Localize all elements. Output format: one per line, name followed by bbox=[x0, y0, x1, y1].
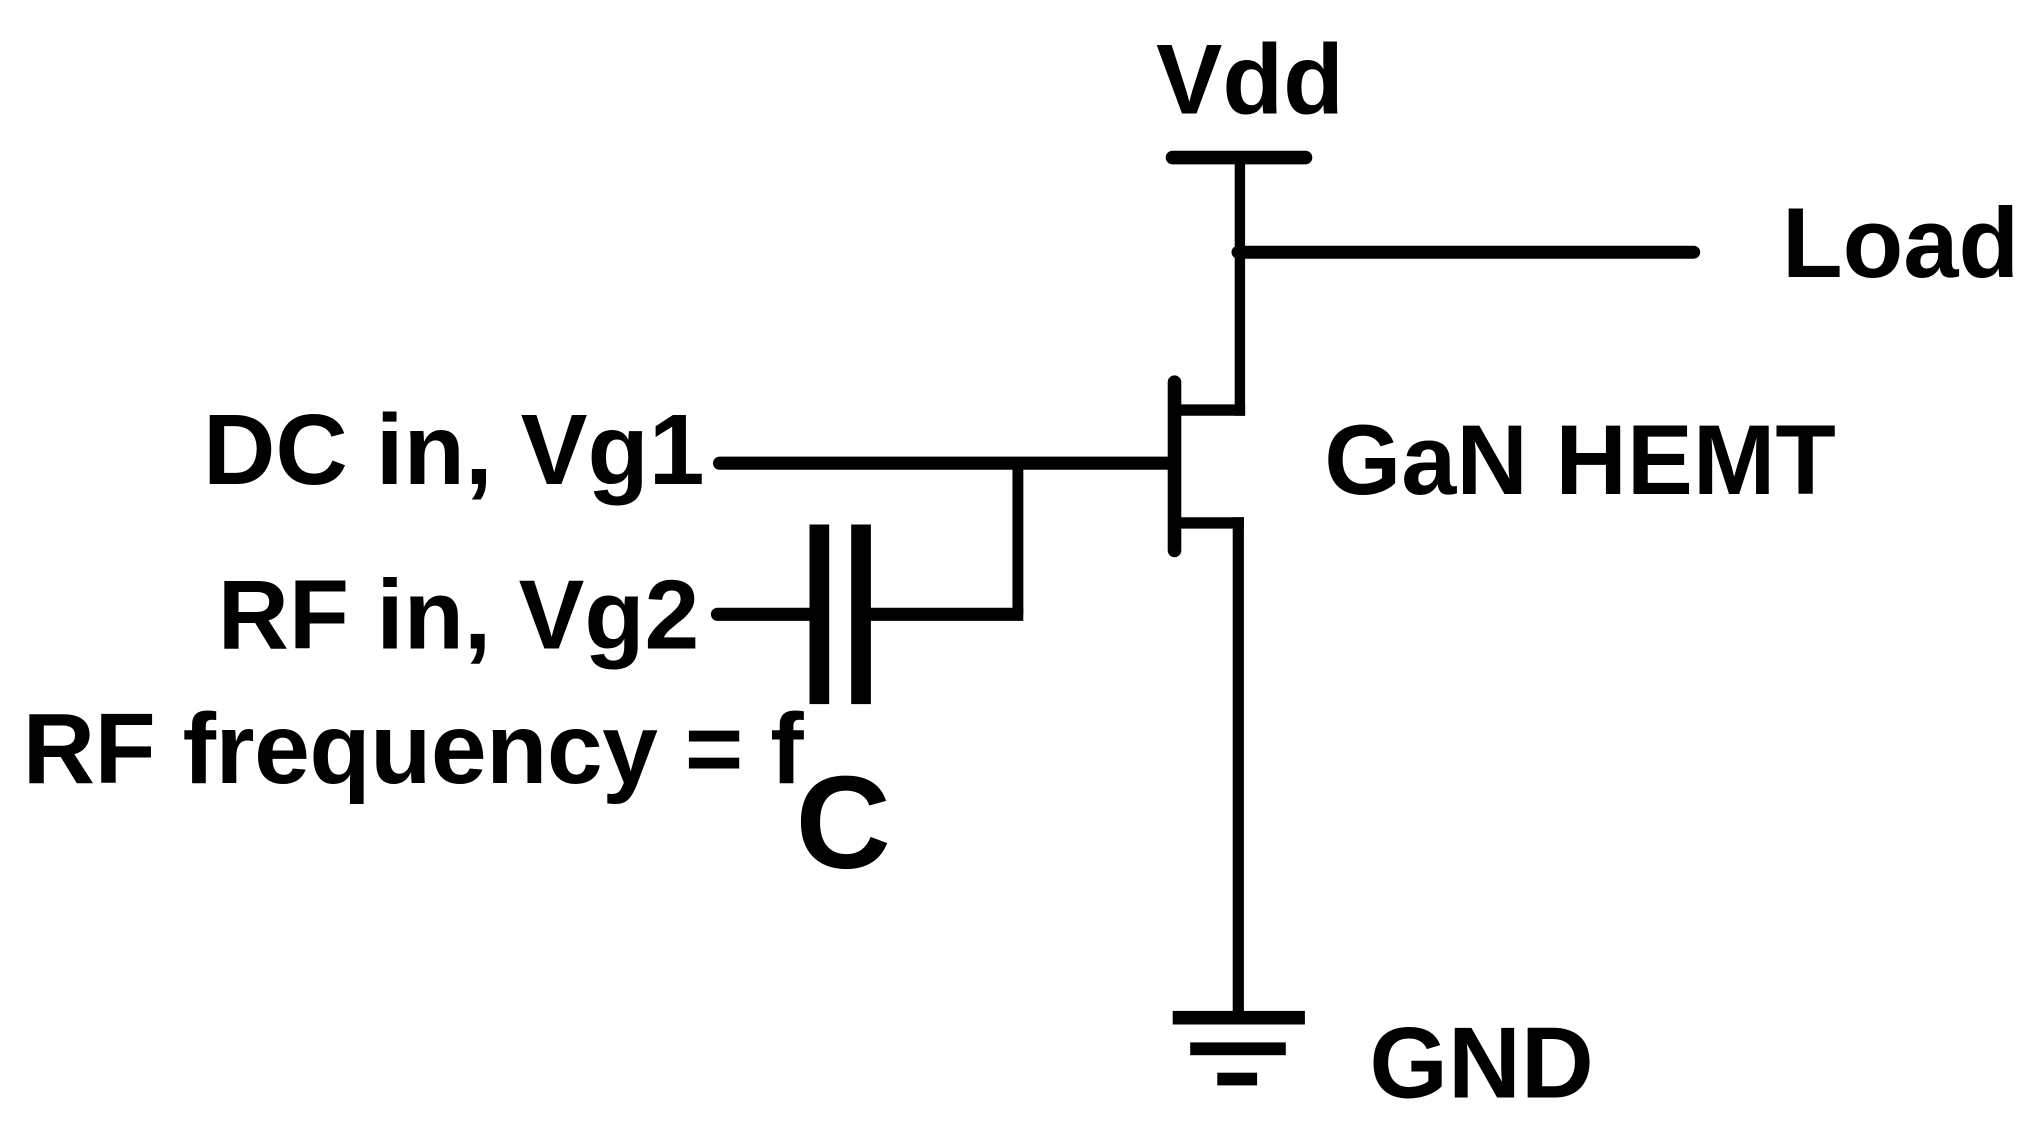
wire Vdd bar to drain (main vertical) bbox=[1235, 158, 1245, 416]
wire RF in to capacitor bbox=[718, 608, 813, 621]
transistor Q1 drain lead bbox=[1176, 404, 1245, 415]
svg-text:Load: Load bbox=[1782, 188, 2019, 299]
capacitor C plate left bbox=[810, 525, 830, 705]
capacitor C plate right bbox=[851, 525, 871, 705]
transistor Q1 source lead bbox=[1176, 517, 1244, 528]
svg-text:DC in, Vg1: DC in, Vg1 bbox=[203, 394, 705, 506]
wire drain node to Load (horizontal) bbox=[1238, 246, 1694, 259]
transistor Q1 gate bar bbox=[1168, 382, 1182, 550]
wire source to ground bbox=[1233, 517, 1244, 1017]
svg-text:Vdd: Vdd bbox=[1156, 25, 1344, 136]
svg-text:RF frequency = f: RF frequency = f bbox=[23, 693, 805, 805]
ground bar 3 bbox=[1217, 1073, 1257, 1086]
wire capacitor to gate junction bbox=[869, 608, 1023, 621]
svg-text:RF in, Vg2: RF in, Vg2 bbox=[218, 560, 700, 670]
wire gate (DC in) bbox=[720, 457, 1173, 470]
svg-text:C: C bbox=[796, 749, 891, 896]
svg-text:GND: GND bbox=[1369, 1008, 1593, 1120]
ground bar 2 bbox=[1190, 1042, 1286, 1055]
svg-text:GaN HEMT: GaN HEMT bbox=[1324, 404, 1836, 515]
wire junction vertical (gate node to capacitor output) bbox=[1012, 457, 1023, 614]
power supply Vdd bar bbox=[1173, 151, 1306, 165]
ground bar 1 bbox=[1173, 1011, 1305, 1025]
